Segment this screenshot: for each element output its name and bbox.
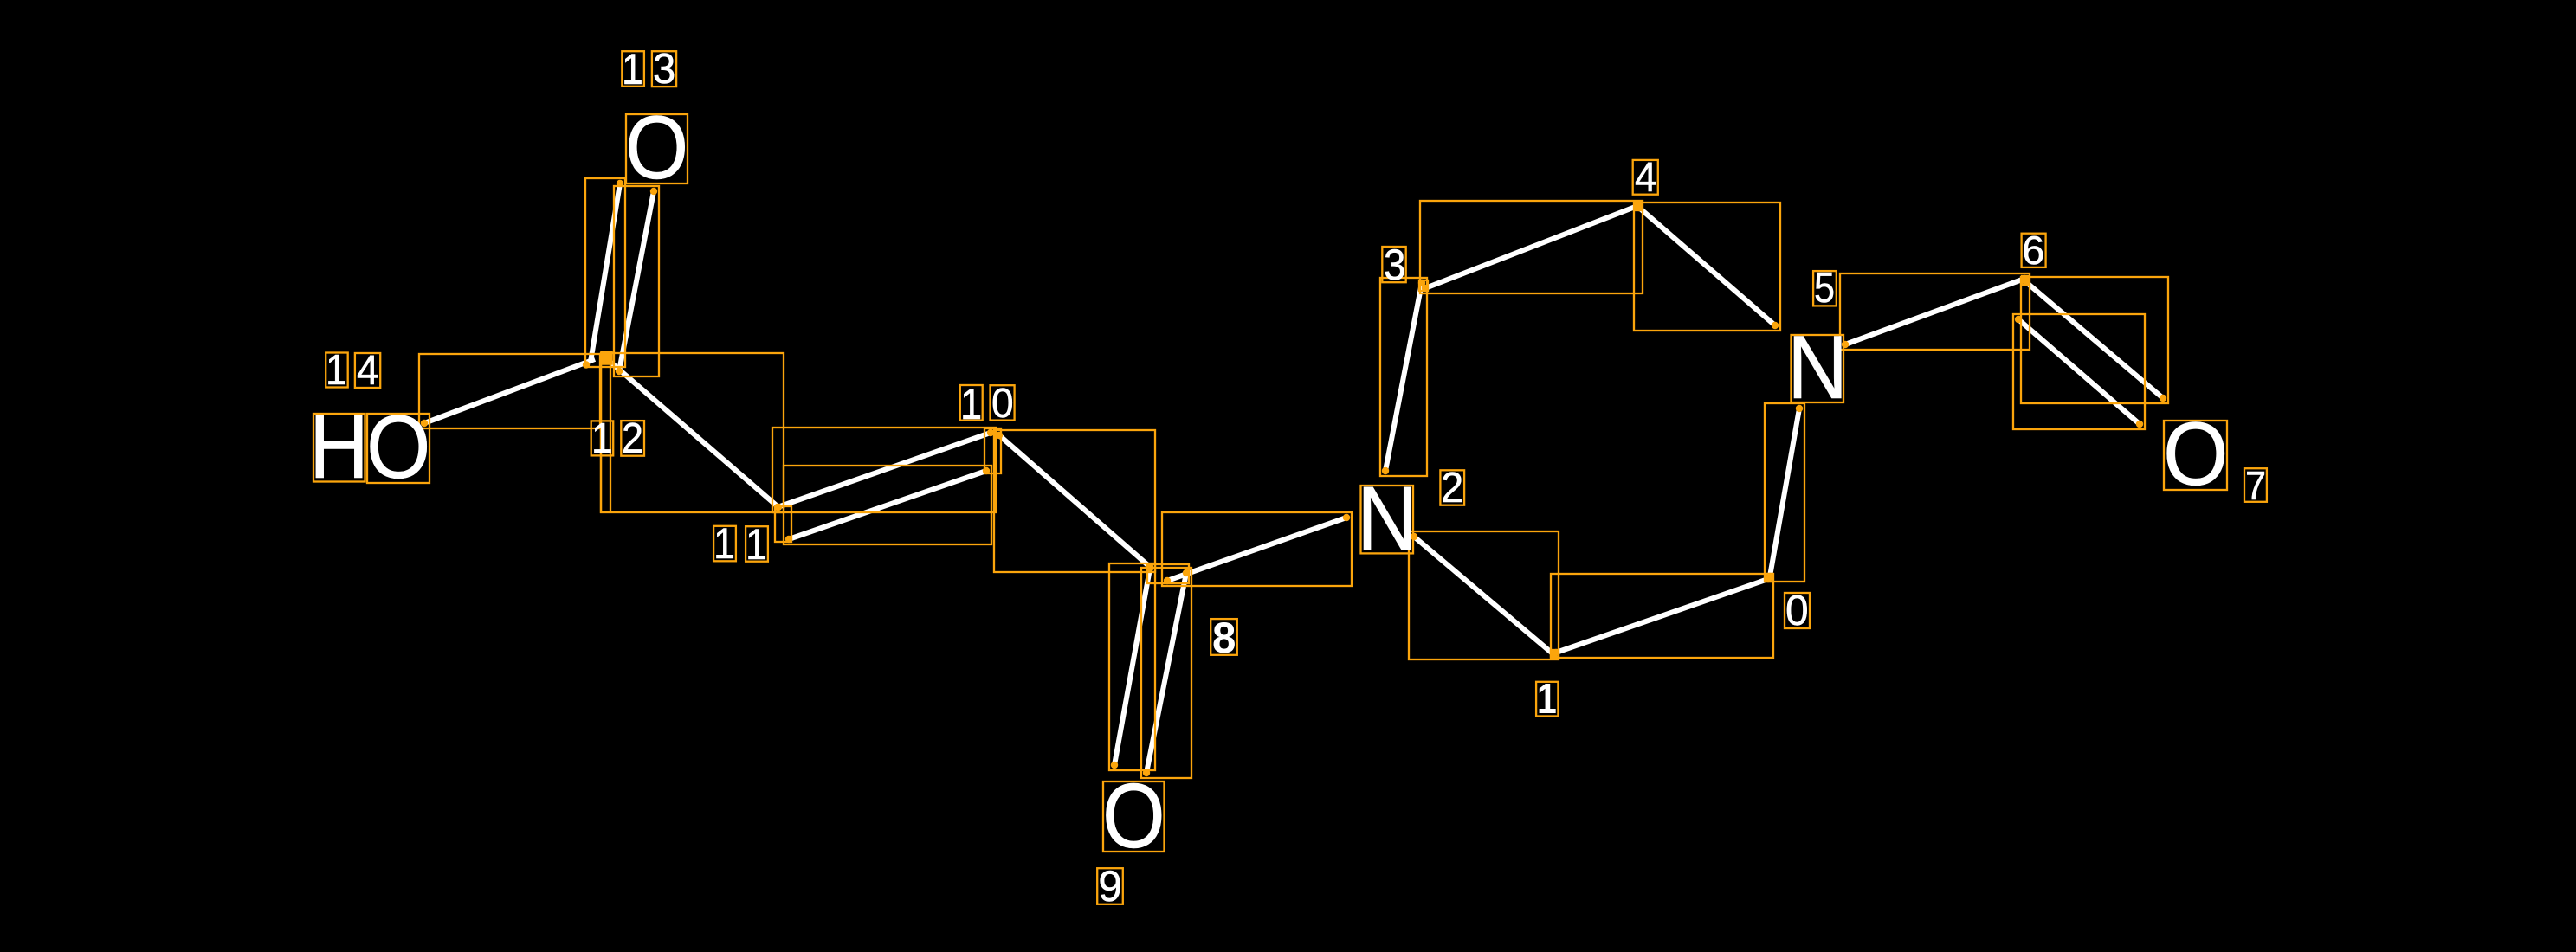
box for atom label N (atom 5): [1792, 335, 1844, 402]
label 6: [2022, 227, 2044, 273]
box for node C4: [1635, 203, 1642, 210]
box for label 10 digit 0: [991, 385, 1015, 420]
box for atom label O (atom 9): [1103, 782, 1165, 852]
wire bond 14-12 (HO-C): [424, 359, 595, 423]
label 10 digit 0: [991, 379, 1014, 428]
box for atom label O (atom 13): [626, 114, 688, 183]
endpoint dots of wire bond 8=9 line b: [1183, 569, 1190, 576]
endpoint dots of wire bond 12=13 line a: [617, 180, 623, 187]
box for label 7: [2244, 468, 2267, 502]
box for wire bond 12-11: [601, 353, 784, 512]
atom label H (of HO, atom 14): [309, 396, 369, 499]
label 12 digit 1: [591, 414, 613, 463]
wire bond 12=13 line a: [591, 183, 620, 362]
wire bond 5-6: [1845, 279, 2024, 344]
box for wire bond 0-1: [1551, 574, 1773, 658]
wire bond 4-5: [1639, 208, 1775, 325]
label 8: [1212, 612, 1236, 663]
box for wire bond 12=13 line a: [585, 178, 625, 367]
box for label 13 digit 3: [652, 51, 676, 87]
box for label 8: [1211, 619, 1237, 655]
box for wire bond 8=9 line a: [1109, 563, 1155, 770]
box for atom label H (of HO, atom 14): [313, 414, 365, 482]
box for label 6: [2022, 234, 2046, 267]
atom label O (of HO, atom 14): [366, 396, 430, 499]
box for wire bond 3-4: [1420, 201, 1643, 293]
endpoint dots of wire bond 5-0: [1796, 405, 1803, 412]
wire bond 2-3: [1385, 283, 1422, 471]
box for label 2: [1440, 470, 1464, 505]
endpoint dots of wire bond 10-8: [996, 432, 1003, 439]
endpoint dots of wire bond 3-4: [1422, 285, 1429, 292]
label 0: [1785, 586, 1809, 635]
endpoint dots of wire bond 6=7 line b: [2015, 316, 2022, 323]
box for node C3: [1419, 280, 1428, 291]
wire bond 12=13 line b: [619, 191, 654, 371]
box for label 14 digit 1: [326, 353, 348, 388]
box for label 1: [1536, 682, 1558, 717]
label 11 digit 1: [746, 519, 767, 569]
box for node C1: [1551, 650, 1559, 657]
box for atom label N (atom 2): [1361, 486, 1414, 553]
atom label O (atom 7): [2163, 403, 2229, 506]
endpoint dots of wire bond 5-6: [1842, 341, 1849, 348]
wire bond 10-8: [999, 435, 1150, 567]
endpoint dots of wire bond 0-1: [1765, 576, 1772, 582]
box for label 12 digit 2: [621, 421, 644, 456]
box for label 4: [1633, 160, 1658, 195]
wire bond 6=7 line a: [2026, 282, 2163, 398]
label 2: [1441, 464, 1463, 512]
label 11 digit 1: [713, 518, 735, 569]
label 4: [1635, 153, 1656, 202]
box for wire bond 12=13 line b: [614, 186, 659, 376]
label 1: [1537, 675, 1557, 724]
endpoint dots of wire bond 12=13 line b: [650, 188, 657, 195]
node C12: [601, 351, 612, 364]
endpoint dots of wire bond 12-11: [603, 355, 610, 362]
endpoint dots of wire bond 1-2: [1550, 651, 1557, 658]
box for node C6: [2022, 276, 2029, 285]
box for label 5: [1813, 271, 1837, 306]
endpoint dots of wire bond 2-3: [1382, 467, 1389, 474]
label 3: [1384, 240, 1405, 290]
wire bond 0-1: [1556, 579, 1768, 653]
box for node C0: [1766, 574, 1772, 582]
box for wire bond 5-0: [1765, 403, 1804, 582]
endpoint dots of wire bond 8=9 line a: [1146, 565, 1153, 572]
label 9: [1098, 861, 1122, 911]
box for label 13 digit 1: [622, 51, 644, 87]
box for wire bond 8=9 line b: [1141, 568, 1191, 778]
box for wire bond 1-2: [1409, 531, 1559, 659]
wire bond 12-11: [606, 358, 778, 507]
label 5: [1814, 264, 1835, 312]
label 14 digit 4: [357, 346, 378, 395]
box for atom label O (of HO, atom 14): [367, 414, 429, 483]
box for label 9: [1097, 868, 1123, 904]
box for atom label O (atom 7): [2164, 421, 2227, 490]
wire bond 3-4: [1425, 206, 1637, 288]
label 12 digit 2: [622, 414, 643, 463]
endpoint dots of wire bond 14-12 (HO-C): [421, 420, 428, 427]
box for node C12 / bond 12-11 inner edge: [601, 355, 610, 512]
endpoint dots of wire bond 11=10 line b: [785, 536, 792, 543]
wire bond 6=7 line b: [2018, 319, 2140, 424]
wire bond 8-2 (C-N): [1167, 518, 1346, 581]
box for wire bond 2-3: [1380, 278, 1427, 476]
box for wire bond 11=10 line a: [772, 428, 996, 512]
box for label 0: [1785, 593, 1810, 628]
endpoint dots of wire bond 4-5: [1636, 204, 1643, 211]
atom label N (atom 5): [1787, 317, 1848, 420]
endpoint dots of wire bond 6=7 line a: [2023, 279, 2030, 286]
endpoint dots of wire bond 8-2 (C-N): [1164, 577, 1171, 584]
label 13 digit 3: [653, 44, 675, 93]
box for node C11: [775, 506, 791, 542]
box for wire bond 6=7 line a: [2021, 277, 2168, 403]
box for label 11 digit 1: [713, 526, 736, 562]
box for wire bond 5-6: [1840, 273, 2030, 350]
box for node C10: [985, 428, 1001, 473]
box for wire bond 11=10 line b: [784, 466, 991, 544]
atom label O (atom 9): [1102, 764, 1165, 869]
endpoint dots of wire bond 11=10 line a: [774, 504, 781, 511]
box for label 11 digit 1: [746, 526, 768, 562]
box for wire bond 10-8: [994, 430, 1155, 572]
wire bond 8=9 line a: [1114, 569, 1150, 765]
box for label 12 digit 1: [591, 421, 614, 455]
box for label 10 digit 1: [960, 385, 983, 421]
label 7: [2245, 462, 2266, 509]
box for label 3: [1382, 247, 1405, 282]
box for wire bond 14-12 (HO-C): [419, 354, 600, 428]
label 13 digit 1: [622, 44, 643, 94]
atom label N (atom 2): [1357, 467, 1417, 571]
atom label O (atom 13): [625, 97, 688, 200]
box for node C8: [1147, 564, 1189, 583]
label 14 digit 1: [326, 345, 347, 395]
box for label 14 digit 4: [355, 353, 380, 388]
box for wire bond 8-2 (C-N): [1162, 512, 1352, 586]
wire bond 11=10 line b: [789, 471, 986, 539]
label 10 digit 1: [960, 378, 982, 429]
box for wire bond 4-5: [1634, 203, 1780, 331]
box for wire bond 6=7 line b: [2013, 314, 2145, 429]
wire bond 1-2: [1414, 537, 1553, 654]
wire bond 11=10 line a: [778, 433, 991, 507]
wire bond 5-0: [1770, 408, 1799, 576]
wire bond 8=9 line b: [1146, 573, 1186, 773]
